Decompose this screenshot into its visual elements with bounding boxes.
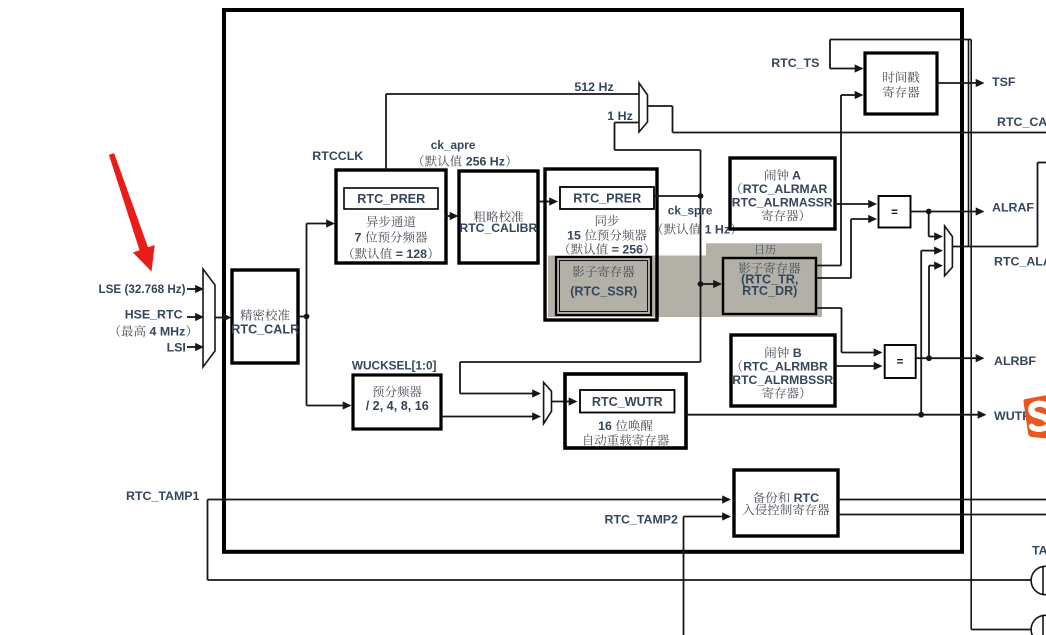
svg-text:RTC_DR): RTC_DR) (742, 284, 797, 298)
wire WUTF out (686, 414, 979, 416)
wire coarse calib to sync prescaler (538, 201, 550, 203)
gate tamper 1 (1031, 566, 1046, 594)
svg-text:/ 2, 4, 8, 16: / 2, 4, 8, 16 (366, 399, 429, 413)
svg-text:7: 7 (355, 230, 362, 244)
node ALRAF branch (926, 209, 932, 215)
register field RTC_PRER (async) (344, 188, 438, 209)
svg-text:=: = (891, 207, 898, 219)
wire alarm A to comparator (835, 203, 870, 205)
wire 1 Hz to output mux (615, 149, 701, 151)
svg-text:4 MHz: 4 MHz (150, 324, 186, 338)
block alarm B registers (731, 335, 835, 406)
register shadow RTC_SSR (556, 257, 651, 315)
gate tamper 2 (1031, 615, 1046, 635)
svg-text:RTC_WUTR: RTC_WUTR (592, 395, 663, 409)
wire ck_spre to wakeup mux (460, 361, 701, 363)
svg-text:16: 16 (598, 419, 612, 433)
svg-text:RTCCLK: RTCCLK (312, 149, 363, 163)
svg-text:RTC_ALARM: RTC_ALARM (994, 254, 1046, 268)
block async 7-bit prescaler RTC_PRER (336, 170, 446, 263)
svg-text:RTC_PRER: RTC_PRER (357, 192, 425, 206)
wire to gate 2 (971, 629, 1031, 631)
svg-text:RTC_PRER: RTC_PRER (573, 192, 641, 206)
svg-text:B: B (793, 346, 802, 360)
node WUTF branch (918, 412, 924, 418)
wire calendar to timestamp (816, 265, 841, 267)
svg-text:ck_spre: ck_spre (668, 204, 713, 218)
svg-text:RTC_TS: RTC_TS (771, 56, 819, 70)
wire ALRAF out (911, 211, 977, 213)
block smooth calibration RTC_CALR (232, 270, 298, 363)
wire RTC_TAMP1 (208, 499, 724, 501)
mux RTC_ALARM selector (945, 226, 953, 276)
svg-text:RTC_ALRMASSR: RTC_ALRMASSR (732, 195, 833, 209)
wire 512 Hz tap (385, 94, 387, 170)
svg-text:= 256: = 256 (612, 242, 643, 256)
wire to async prescaler (307, 223, 328, 225)
register field RTC_WUTR (580, 390, 675, 413)
svg-text:LSI: LSI (167, 340, 186, 354)
node RTCCLK junction (298, 316, 307, 318)
svg-text:RTC: RTC (794, 491, 820, 505)
wire RTCCLK rail (306, 224, 308, 406)
wire to wakeup prescaler (307, 405, 345, 407)
svg-text:RTC_CALIBR: RTC_CALIBR (459, 221, 537, 235)
wire RTC_TAMP2 (683, 517, 685, 635)
comparator A (879, 196, 911, 228)
wire ck_spre from sync prescaler (654, 195, 701, 197)
wire LSE to mux (187, 288, 197, 290)
node ALRBF branch (926, 355, 932, 361)
wire ck_apre to coarse calib (446, 215, 451, 217)
wire rail B tamper/timestamp (970, 40, 972, 630)
block calendar shadow registers RTC_TR RTC_DR (723, 258, 816, 314)
wire mux to RTC_WUTR (552, 401, 571, 403)
wire mux to RTC_CALR (215, 317, 224, 319)
svg-text:1 Hz: 1 Hz (607, 109, 632, 123)
wire LSI to mux (187, 346, 197, 348)
svg-text:HSE_RTC: HSE_RTC (125, 307, 183, 321)
wire calendar to comparator B (816, 307, 842, 309)
wire ALRAF to alarm mux (928, 212, 930, 237)
wire alarm B to comparator (835, 365, 875, 367)
svg-text:1 Hz: 1 Hz (705, 222, 730, 236)
register field RTC_PRER (sync) (560, 187, 654, 209)
svg-text:TSF: TSF (992, 75, 1016, 89)
block alarm A registers (730, 158, 835, 229)
svg-text:= 128: = 128 (396, 247, 427, 261)
block wakeup prescaler /2,4,8,16 (353, 375, 441, 429)
mux 512Hz/1Hz calib selector (639, 83, 648, 132)
svg-text:(RTC_SSR): (RTC_SSR) (570, 285, 637, 299)
svg-text:LSE (32.768 Hz): LSE (32.768 Hz) (99, 283, 186, 296)
label (max 4 MHz) (117, 325, 121, 337)
svg-text:RTC_TAMP2: RTC_TAMP2 (605, 512, 679, 526)
calendar gray band (548, 243, 822, 317)
RTC outer frame (224, 10, 962, 552)
wire HSE_RTC to mux (187, 316, 197, 318)
wire into calendar (701, 283, 715, 285)
node ck_spre calendar tap (698, 281, 704, 287)
mux clock-source selector (203, 269, 215, 367)
wire ALRBF to alarm mux (928, 266, 930, 359)
svg-text:RTC_CALIB: RTC_CALIB (997, 115, 1046, 129)
block coarse calibration RTC_CALIBR (459, 171, 538, 263)
wire backup out 2 (838, 514, 1046, 516)
block backup and tamper control registers (734, 470, 838, 536)
wire rail A (968, 40, 970, 247)
wire TSF out (937, 82, 977, 84)
wire WUTF to alarm mux (920, 251, 922, 415)
svg-text:TAMPE: TAMPE (1032, 543, 1046, 557)
wire ALRBF out (916, 357, 977, 359)
svg-text:ALRAF: ALRAF (992, 200, 1034, 214)
svg-text:RTC_CALR: RTC_CALR (231, 323, 299, 337)
svg-text:RTC_ALRMBSSR: RTC_ALRMBSSR (732, 373, 833, 387)
svg-text:512 Hz: 512 Hz (574, 80, 613, 94)
svg-text:ALRBF: ALRBF (994, 354, 1036, 368)
wire RTC_ALARM out (952, 246, 1037, 248)
node ck_spre top (698, 193, 704, 199)
svg-text:RTC_ALRMAR: RTC_ALRMAR (743, 182, 828, 196)
svg-text:A: A (792, 168, 801, 182)
svg-text:15: 15 (567, 228, 581, 242)
svg-text:RTC_TAMP1: RTC_TAMP1 (126, 489, 200, 503)
svg-text:RTC_ALRMBR: RTC_ALRMBR (743, 359, 828, 373)
watermark logo (1023, 395, 1046, 438)
wire RTC_CALIB out (648, 105, 673, 107)
comparator B (885, 345, 916, 378)
wire ck_spre rail (700, 150, 702, 362)
svg-text:WUCKSEL[1:0]: WUCKSEL[1:0] (352, 359, 437, 373)
wire RTC_TS loop (830, 39, 971, 41)
block sync 15-bit prescaler (545, 169, 657, 320)
annotation red arrow (109, 153, 155, 271)
svg-text:256 Hz: 256 Hz (466, 154, 505, 168)
wire calendar to comparator A (816, 277, 851, 279)
mux wakeup clock selector (544, 382, 552, 423)
block wakeup autoreload (565, 374, 686, 448)
svg-text:=: = (897, 357, 904, 369)
label calendar (756, 245, 763, 255)
wire backup out 1 (838, 499, 1046, 501)
block timestamp register (865, 53, 937, 114)
svg-text:WUTF: WUTF (994, 409, 1030, 423)
svg-text:ck_apre: ck_apre (431, 138, 476, 152)
wire prescaler to wakeup mux (441, 416, 534, 418)
